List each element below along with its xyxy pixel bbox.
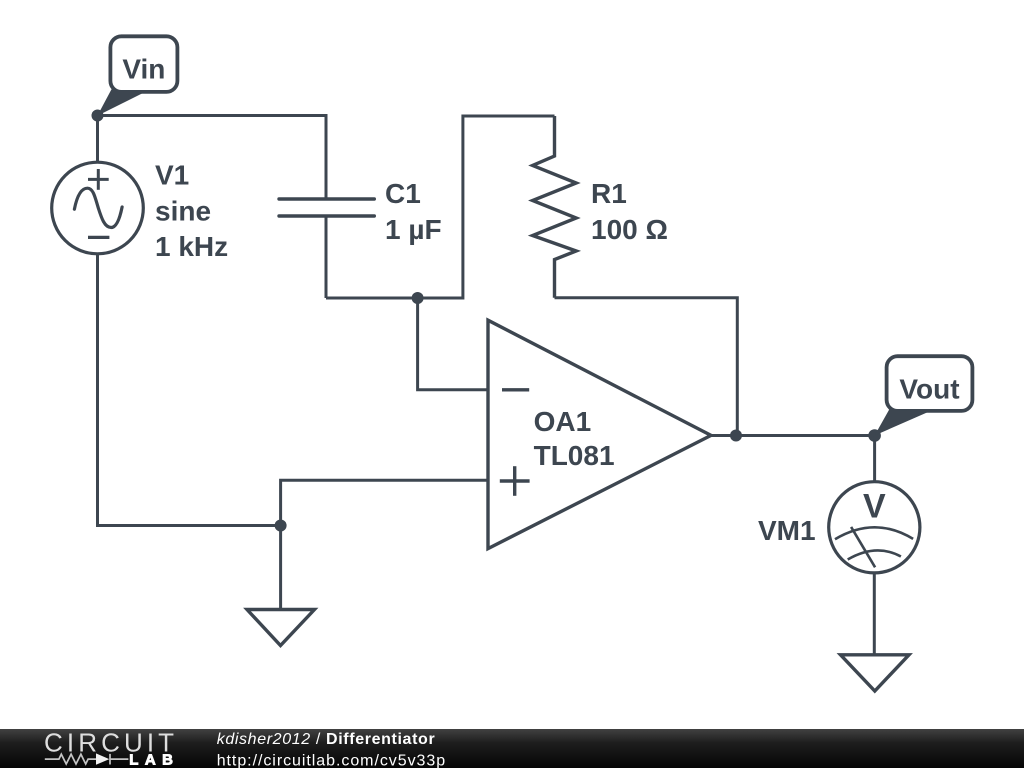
node Vout dot	[868, 429, 881, 442]
svg-text:OA1: OA1	[534, 406, 592, 437]
wire op-amp output to Vout node	[711, 434, 875, 437]
footer bar	[0, 729, 1024, 768]
resistor R1	[533, 116, 577, 298]
svg-text:Vout: Vout	[899, 373, 959, 404]
svg-text:http://circuitlab.com/cv5v33p: http://circuitlab.com/cv5v33p	[217, 752, 446, 768]
node Vin dot	[92, 110, 104, 122]
capacitor C1	[279, 199, 374, 216]
ground (left)	[247, 610, 315, 646]
CircuitLab logo	[44, 728, 180, 768]
svg-text:C1: C1	[385, 178, 421, 209]
svg-text:sine: sine	[155, 195, 211, 226]
VM1 needle	[851, 527, 875, 567]
node inverting junction	[412, 292, 424, 304]
flag Vin	[97, 36, 177, 115]
svg-text:kdisher2012 / Differentiator: kdisher2012 / Differentiator	[217, 731, 436, 748]
wire C1 bottom to inverting node	[326, 116, 555, 298]
wire VM1 bottom to ground	[873, 573, 876, 654]
wire R1 bottom to output junction	[555, 298, 738, 436]
wire C1 bottom lead	[325, 216, 328, 298]
V1 sine symbol	[74, 188, 122, 227]
V1 plus mark	[88, 169, 109, 190]
svg-text:TL081: TL081	[534, 440, 615, 471]
node plus junction	[275, 520, 287, 532]
wire junction up to op-amp plus input	[281, 480, 487, 525]
svg-text:1 kHz: 1 kHz	[155, 231, 228, 262]
ground (right)	[841, 655, 910, 691]
wire Vin node to C1 top corner	[98, 116, 327, 200]
op-amp plus symbol	[500, 466, 530, 496]
wire Vout node down to voltmeter	[873, 436, 876, 483]
svg-text:LAB: LAB	[129, 751, 179, 768]
op-amp minus symbol	[502, 388, 529, 391]
svg-text:1 µF: 1 µF	[385, 214, 442, 245]
wire V1 bottom down and right to plus-node	[98, 254, 281, 526]
wire junction to op-amp minus input	[418, 298, 487, 390]
node output junction	[730, 430, 742, 442]
svg-text:Vin: Vin	[122, 53, 165, 84]
wire junction down to ground	[279, 526, 282, 610]
op-amp OA1	[488, 320, 711, 548]
svg-text:VM1: VM1	[758, 515, 816, 546]
voltage source V1	[52, 162, 144, 254]
wire Vin node down to V1	[96, 116, 99, 164]
VM1 meter upper arc	[835, 527, 913, 539]
svg-text:100 Ω: 100 Ω	[591, 214, 668, 245]
svg-text:V1: V1	[155, 160, 189, 191]
flag Vout	[875, 356, 973, 435]
svg-text:R1: R1	[591, 178, 627, 209]
footer title text	[217, 731, 446, 768]
voltmeter VM1	[829, 482, 920, 573]
V1 minus mark	[88, 236, 109, 239]
VM1 meter lower arc	[848, 550, 901, 559]
svg-text:V: V	[863, 488, 886, 526]
